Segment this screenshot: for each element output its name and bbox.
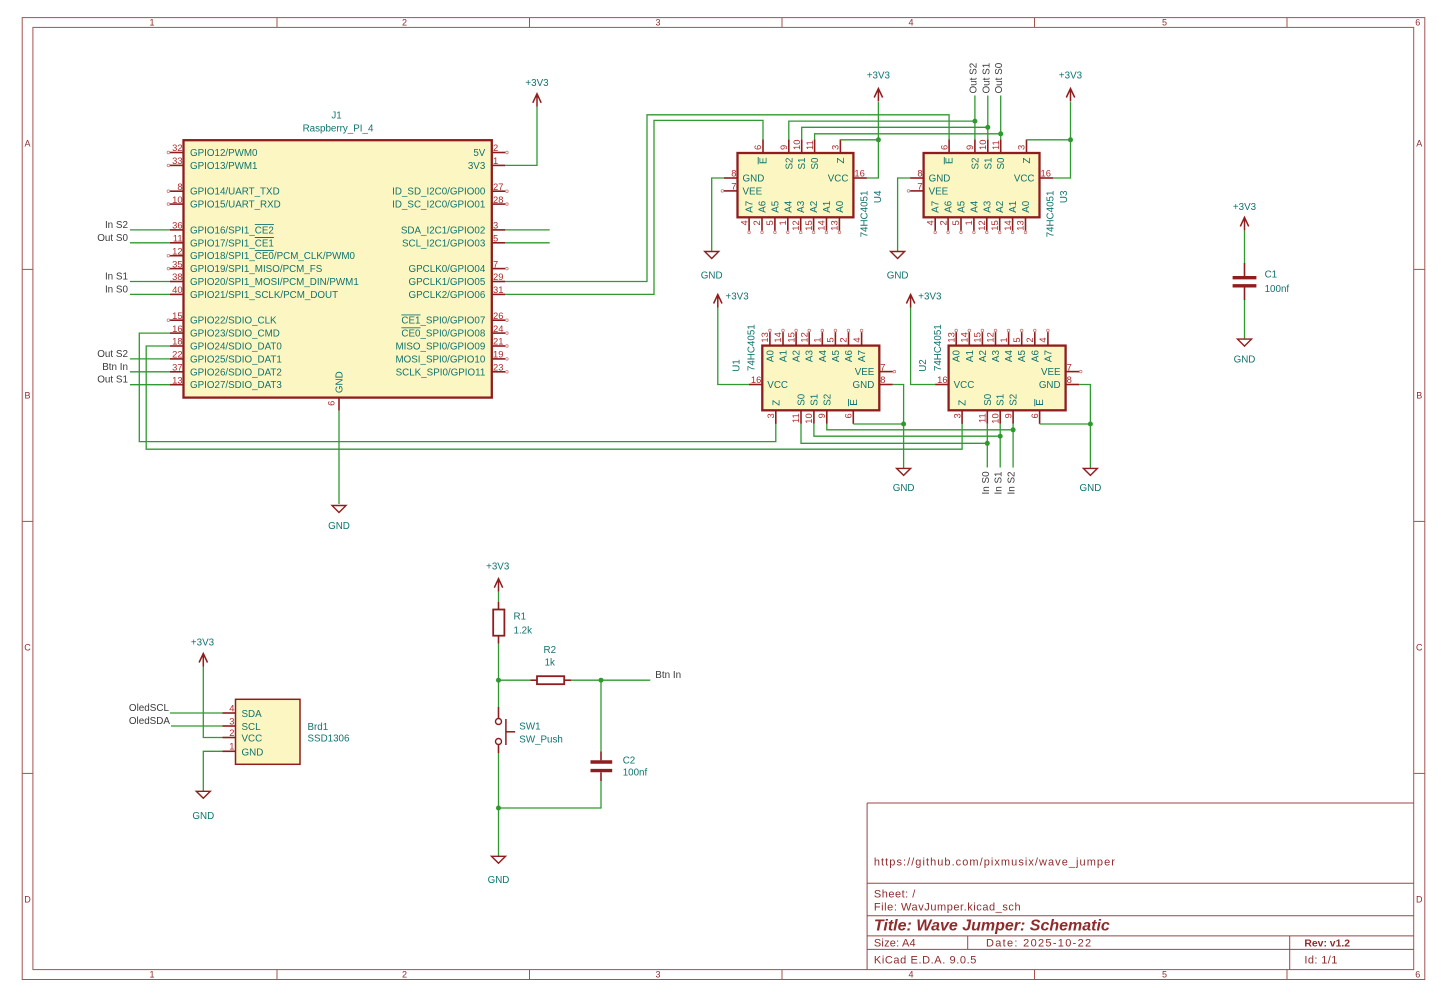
power +3V3 (U2) <box>906 295 914 308</box>
wire In S1 vertical <box>999 423 1001 467</box>
wire junction to C2 <box>600 680 602 751</box>
svg-text:5: 5 <box>1162 18 1167 28</box>
svg-text:Out S0: Out S0 <box>994 62 1005 93</box>
wire U1 S1 to U2 S1 <box>814 423 1000 436</box>
svg-text:10: 10 <box>989 413 1000 423</box>
pin 14 A1 <box>826 217 828 231</box>
wire R2 to Btn In <box>571 679 650 681</box>
svg-text:12: 12 <box>172 245 182 256</box>
svg-text:In S0: In S0 <box>981 471 992 495</box>
svg-text:GPIO22/SDIO_CLK: GPIO22/SDIO_CLK <box>190 316 277 327</box>
power +3V3 (R1) <box>494 579 502 592</box>
svg-text:VCC: VCC <box>828 174 849 185</box>
svg-text:A7: A7 <box>857 350 868 362</box>
pin 14 A1 <box>782 332 784 346</box>
title block <box>867 803 1414 970</box>
svg-text:9: 9 <box>1002 413 1013 418</box>
connector J1 Raspberry_Pi_4 <box>167 110 508 410</box>
pin 1 3V3 <box>492 164 506 166</box>
svg-text:3: 3 <box>1016 145 1027 150</box>
svg-text:A6: A6 <box>1030 350 1041 363</box>
wire GPIO24 to U2 Z <box>146 346 962 449</box>
svg-text:4: 4 <box>229 702 234 713</box>
svg-text:A5: A5 <box>1017 350 1028 363</box>
multiplexer U3 74HC4051 <box>907 140 1070 238</box>
wire junction to R2 <box>499 679 531 681</box>
svg-text:S1: S1 <box>983 158 994 170</box>
pin 7 VEE <box>879 371 893 373</box>
svg-text:B: B <box>24 391 30 401</box>
wire C1 to GND <box>1244 300 1246 339</box>
svg-text:+3V3: +3V3 <box>867 71 891 82</box>
pin 2 A6 <box>761 217 763 231</box>
pin 7 GPCLK0/GPIO04 <box>492 268 506 270</box>
svg-text:U4: U4 <box>873 190 884 203</box>
svg-text:74HC4051: 74HC4051 <box>860 191 871 238</box>
pin 6 E <box>852 410 854 424</box>
svg-text:A0: A0 <box>835 200 846 213</box>
resistor R1 1.2k <box>493 602 532 644</box>
pin 12 A3 <box>800 217 802 231</box>
svg-text:4: 4 <box>851 337 862 342</box>
pin 13 A0 <box>955 332 957 346</box>
svg-text:A7: A7 <box>1043 350 1054 362</box>
pin 3 SDA_I2C1/GPIO02 <box>492 229 506 231</box>
svg-text:6: 6 <box>326 401 337 406</box>
svg-text:A3: A3 <box>796 200 807 213</box>
svg-text:SCL_I2C1/GPIO03: SCL_I2C1/GPIO03 <box>402 238 486 249</box>
wire junction to SW1 <box>498 680 500 707</box>
resistor R2 1k <box>531 645 572 684</box>
wire U2 VCC to +3V3 <box>911 308 936 385</box>
wire Btn In <box>130 371 170 373</box>
svg-text:7: 7 <box>917 181 922 192</box>
pin 1 A4 <box>787 217 789 231</box>
svg-text:A3: A3 <box>805 350 816 363</box>
svg-text:3: 3 <box>655 18 660 28</box>
wire U4 S0 to Out S0 <box>815 134 1001 140</box>
svg-text:15: 15 <box>785 332 796 342</box>
wire Out S0 <box>130 242 170 244</box>
junction <box>998 131 1003 136</box>
wire U3 Z to VCC net <box>1027 139 1071 141</box>
svg-text:A1: A1 <box>965 350 976 362</box>
svg-text:7: 7 <box>493 258 498 269</box>
svg-text:In S0: In S0 <box>105 284 129 295</box>
pin 2 VCC <box>223 737 236 739</box>
svg-text:https://github.com/pixmusix/wa: https://github.com/pixmusix/wave_jumper <box>874 856 1116 868</box>
svg-text:E: E <box>759 157 770 164</box>
svg-text:15: 15 <box>172 310 182 321</box>
wire U1 S0 to U2 S0 <box>801 423 987 443</box>
pin 4 A7 <box>861 332 863 346</box>
svg-text:12: 12 <box>976 220 987 230</box>
svg-text:GPIO13/PWM1: GPIO13/PWM1 <box>190 161 258 172</box>
svg-text:2: 2 <box>402 970 407 980</box>
pin 16 VCC <box>749 384 763 386</box>
multiplexer U1 74HC4051 <box>732 324 896 424</box>
svg-text:Z: Z <box>958 400 969 406</box>
svg-text:A4: A4 <box>783 200 794 213</box>
svg-text:1.2k: 1.2k <box>514 626 533 637</box>
wire U1 VCC to +3V3 <box>718 308 749 385</box>
svg-text:7: 7 <box>1067 361 1072 372</box>
svg-text:SDA: SDA <box>242 709 263 720</box>
svg-text:B: B <box>1416 391 1422 401</box>
svg-text:VCC: VCC <box>954 380 975 391</box>
svg-text:10: 10 <box>172 194 182 205</box>
svg-text:12: 12 <box>798 332 809 342</box>
svg-text:33: 33 <box>172 155 182 166</box>
svg-text:9: 9 <box>816 413 827 418</box>
svg-text:VEE: VEE <box>1041 367 1061 378</box>
svg-text:GND: GND <box>1234 354 1256 365</box>
svg-text:21: 21 <box>493 336 503 347</box>
wire U1 GND <box>893 385 904 469</box>
svg-text:E: E <box>945 157 956 164</box>
pin 13 A0 <box>1025 217 1027 231</box>
svg-text:9: 9 <box>778 145 789 150</box>
svg-text:A3: A3 <box>982 200 993 213</box>
wire Out S0 vertical <box>1000 96 1002 140</box>
pin 12 A3 <box>986 217 988 231</box>
svg-text:VEE: VEE <box>929 186 949 197</box>
display Brd1 SSD1306 <box>223 699 350 764</box>
wire C1 to +3V3 <box>1244 230 1246 263</box>
wire In S2 vertical <box>1012 423 1014 467</box>
pin 16 VCC <box>1040 177 1054 179</box>
pin 1 A4 <box>1008 332 1010 346</box>
pin 5 A5 <box>774 217 776 231</box>
svg-text:Out S2: Out S2 <box>97 349 128 360</box>
pin 16 VCC <box>935 384 949 386</box>
svg-text:Z: Z <box>771 400 782 406</box>
svg-text:C1: C1 <box>1265 270 1278 281</box>
svg-text:+3V3: +3V3 <box>486 562 510 573</box>
multiplexer U2 74HC4051 <box>918 324 1082 424</box>
pin 7 VEE <box>910 190 924 192</box>
pin 10 S1 <box>999 410 1001 424</box>
svg-text:CE1_SPI0/GPIO07: CE1_SPI0/GPIO07 <box>401 316 485 327</box>
pin 12 A3 <box>808 332 810 346</box>
svg-text:14: 14 <box>959 332 970 342</box>
svg-text:GPIO21/SPI1_SCLK/PCM_DOUT: GPIO21/SPI1_SCLK/PCM_DOUT <box>190 290 338 301</box>
svg-text:8: 8 <box>731 168 736 179</box>
pin 8 GND <box>879 384 893 386</box>
svg-text:A4: A4 <box>1004 350 1015 363</box>
pin 14 A1 <box>968 332 970 346</box>
wire 3V3 pin1 <box>505 107 537 166</box>
wire U4 GND <box>712 178 724 252</box>
svg-text:3: 3 <box>229 715 234 726</box>
svg-text:A4: A4 <box>969 200 980 213</box>
svg-text:CE0_SPI0/GPIO08: CE0_SPI0/GPIO08 <box>401 329 485 340</box>
svg-text:3: 3 <box>830 145 841 150</box>
svg-text:OledSCL: OledSCL <box>129 703 170 714</box>
pin 4 SDA <box>223 712 236 714</box>
svg-text:32: 32 <box>172 142 182 153</box>
svg-text:GND: GND <box>743 174 765 185</box>
svg-text:SDA_I2C1/GPIO02: SDA_I2C1/GPIO02 <box>401 225 485 236</box>
svg-text:13: 13 <box>1015 220 1026 230</box>
wire U4 S2 to Out S2 <box>789 121 975 140</box>
junction <box>985 441 990 446</box>
svg-text:D: D <box>1416 895 1423 905</box>
junction <box>998 434 1003 439</box>
wire U1 S2 to U2 S2 <box>827 423 1013 430</box>
power +3V3 (Brd1) <box>199 654 207 667</box>
pin 8 GPIO14/UART_TXD <box>170 190 184 192</box>
svg-text:A5: A5 <box>831 350 842 363</box>
pin 3 Z <box>1026 140 1028 154</box>
pin 40 GPIO21/SPI1_SCLK/PCM_DOUT <box>170 293 184 295</box>
junction <box>1068 137 1073 142</box>
svg-text:3V3: 3V3 <box>468 161 486 172</box>
pin 2 A6 <box>947 217 949 231</box>
pin 15 GPIO22/SDIO_CLK <box>170 319 184 321</box>
svg-text:1: 1 <box>777 220 788 225</box>
ground (J1) <box>332 506 346 513</box>
pin 11 GPIO17/SPI1_CE1 <box>170 242 184 244</box>
svg-text:Sheet: /: Sheet: / <box>874 889 916 901</box>
capacitor C1 <box>1233 263 1290 300</box>
svg-text:Raspberry_PI_4: Raspberry_PI_4 <box>303 124 374 135</box>
svg-text:13: 13 <box>759 332 770 342</box>
svg-text:74HC4051: 74HC4051 <box>1046 191 1057 238</box>
svg-text:Title: Wave Jumper: Schematic: Title: Wave Jumper: Schematic <box>874 917 1110 934</box>
svg-text:8: 8 <box>1067 374 1072 385</box>
pin 13 GPIO27/SDIO_DAT3 <box>170 384 184 386</box>
pin 9 S2 <box>826 410 828 424</box>
junction <box>985 125 990 130</box>
svg-text:+3V3: +3V3 <box>918 292 942 303</box>
svg-text:5: 5 <box>493 233 498 244</box>
svg-text:4: 4 <box>924 220 935 225</box>
svg-text:A6: A6 <box>944 200 955 213</box>
svg-text:S2: S2 <box>970 158 981 170</box>
svg-text:S1: S1 <box>996 394 1007 406</box>
wire In S2 <box>130 229 170 231</box>
svg-text:Btn In: Btn In <box>655 670 681 681</box>
pin 38 GPIO20/SPI1_MOSI/PCM_DIN/PWM1 <box>170 281 184 283</box>
wire Out S1 vertical <box>987 96 989 140</box>
wire U3 GND <box>898 178 911 252</box>
wire Out S1 <box>130 384 170 386</box>
svg-text:11: 11 <box>173 233 183 244</box>
svg-text:14: 14 <box>816 220 827 230</box>
svg-text:KiCad E.D.A. 9.0.5: KiCad E.D.A. 9.0.5 <box>874 954 977 966</box>
ground (U2) <box>1083 468 1097 475</box>
svg-text:Out S0: Out S0 <box>97 233 128 244</box>
svg-text:38: 38 <box>172 271 182 282</box>
pin 5 A5 <box>834 332 836 346</box>
svg-text:A6: A6 <box>844 350 855 363</box>
ground (SW1) <box>492 856 506 863</box>
svg-text:GPIO14/UART_TXD: GPIO14/UART_TXD <box>190 187 280 198</box>
svg-text:E: E <box>849 399 860 406</box>
pin 4 A7 <box>1047 332 1049 346</box>
svg-text:GND: GND <box>488 875 510 886</box>
pin 37 GPIO26/SDIO_DAT2 <box>170 371 184 373</box>
svg-text:+3V3: +3V3 <box>525 78 549 89</box>
pin 11 S0 <box>814 140 816 154</box>
wire U4 VCC to +3V3 <box>867 102 879 178</box>
svg-text:GPIO20/SPI1_MOSI/PCM_DIN/PWM1: GPIO20/SPI1_MOSI/PCM_DIN/PWM1 <box>190 277 359 288</box>
svg-text:GPCLK1/GPIO05: GPCLK1/GPIO05 <box>409 277 486 288</box>
svg-text:In S1: In S1 <box>105 272 129 283</box>
pin 10 S1 <box>801 140 803 154</box>
svg-text:2: 2 <box>937 220 948 225</box>
pin 12 A3 <box>995 332 997 346</box>
svg-text:2: 2 <box>402 18 407 28</box>
wire Out S2 <box>130 358 170 360</box>
svg-text:In S1: In S1 <box>994 471 1005 495</box>
svg-text:File: WavJumper.kicad_sch: File: WavJumper.kicad_sch <box>874 902 1021 914</box>
svg-text:J1: J1 <box>331 110 341 121</box>
svg-text:31: 31 <box>493 284 503 295</box>
pin 3 SCL <box>223 725 236 727</box>
svg-text:Date: 2025-10-22: Date: 2025-10-22 <box>986 937 1092 949</box>
wire U4 S1 to Out S1 <box>802 127 988 140</box>
pin 11 S0 <box>986 410 988 424</box>
svg-text:4: 4 <box>908 970 913 980</box>
svg-text:GPIO16/SPI1_CE2: GPIO16/SPI1_CE2 <box>190 225 274 236</box>
svg-text:18: 18 <box>172 336 182 347</box>
svg-text:GPIO19/SPI1_MISO/PCM_FS: GPIO19/SPI1_MISO/PCM_FS <box>190 264 323 275</box>
svg-text:C: C <box>1416 643 1423 653</box>
svg-text:A2: A2 <box>792 350 803 362</box>
svg-text:1: 1 <box>998 337 1009 342</box>
svg-text:6: 6 <box>938 145 949 150</box>
svg-text:A7: A7 <box>931 201 942 213</box>
svg-text:13: 13 <box>945 332 956 342</box>
pin 21 MISO_SPI0/GPIO09 <box>492 345 506 347</box>
svg-text:In S2: In S2 <box>105 220 128 231</box>
svg-text:8: 8 <box>177 181 182 192</box>
pin 6 E <box>762 140 764 154</box>
ground (C1) <box>1238 339 1252 346</box>
pin 3 Z <box>839 140 841 154</box>
svg-text:14: 14 <box>772 332 783 342</box>
wire U1 E to GND net <box>853 423 903 425</box>
pin 6 E <box>948 140 950 154</box>
wire In S0 <box>130 293 170 295</box>
pin 14 A1 <box>1012 217 1014 231</box>
junction <box>496 678 501 683</box>
svg-text:16: 16 <box>751 374 761 385</box>
svg-text:15: 15 <box>972 332 983 342</box>
wire C2 to GND junction <box>499 781 602 808</box>
svg-text:C2: C2 <box>623 755 636 766</box>
svg-text:S1: S1 <box>797 158 808 170</box>
pin 10 S1 <box>813 410 815 424</box>
svg-text:36: 36 <box>172 220 182 231</box>
svg-text:GPIO23/SDIO_CMD: GPIO23/SDIO_CMD <box>190 329 280 340</box>
svg-text:S2: S2 <box>1009 394 1020 406</box>
svg-text:VEE: VEE <box>743 186 763 197</box>
svg-text:27: 27 <box>493 181 503 192</box>
wire Out S2 vertical <box>974 96 976 140</box>
svg-text:1: 1 <box>493 155 498 166</box>
pin 2 A6 <box>848 332 850 346</box>
svg-text:19: 19 <box>493 349 503 360</box>
svg-text:A0: A0 <box>952 350 963 363</box>
svg-text:SCLK_SPI0/GPIO11: SCLK_SPI0/GPIO11 <box>396 367 486 378</box>
wire GPCLK2 to U4 E <box>505 120 763 294</box>
svg-text:23: 23 <box>493 362 503 373</box>
svg-text:GPCLK2/GPIO06: GPCLK2/GPIO06 <box>409 290 486 301</box>
svg-text:+3V3: +3V3 <box>191 637 215 648</box>
svg-text:VCC: VCC <box>1014 174 1035 185</box>
pin 35 GPIO19/SPI1_MISO/PCM_FS <box>170 268 184 270</box>
svg-text:In S2: In S2 <box>1007 471 1018 494</box>
pin 9 S2 <box>1012 410 1014 424</box>
svg-text:11: 11 <box>790 413 801 423</box>
svg-text:3: 3 <box>951 413 962 418</box>
wire to GND <box>498 808 500 856</box>
svg-text:A2: A2 <box>978 350 989 362</box>
svg-text:3: 3 <box>765 413 776 418</box>
svg-text:R1: R1 <box>514 612 527 623</box>
svg-text:S2: S2 <box>784 158 795 170</box>
pin 4 A7 <box>934 217 936 231</box>
svg-text:1: 1 <box>149 970 154 980</box>
svg-text:GPIO27/SDIO_DAT3: GPIO27/SDIO_DAT3 <box>190 380 282 391</box>
wire U4 Z to VCC net <box>840 139 878 141</box>
pin 10 S1 <box>987 140 989 154</box>
pin 11 S0 <box>800 410 802 424</box>
junction <box>901 422 906 427</box>
pin 15 A2 <box>795 332 797 346</box>
pin 9 S2 <box>788 140 790 154</box>
svg-text:16: 16 <box>1041 168 1051 179</box>
pin 24 CE0_SPI0/GPIO08 <box>492 332 506 334</box>
svg-text:ID_SD_I2C0/GPIO00: ID_SD_I2C0/GPIO00 <box>392 187 486 198</box>
wire U2 E to GND net <box>1040 423 1091 425</box>
wire U3 VCC to +3V3 <box>1053 102 1071 178</box>
pin 4 A7 <box>748 217 750 231</box>
ground (U4) <box>705 252 719 259</box>
svg-text:A5: A5 <box>770 200 781 213</box>
svg-text:MOSI_SPI0/GPIO10: MOSI_SPI0/GPIO10 <box>395 354 485 365</box>
svg-text:GND: GND <box>893 483 915 494</box>
svg-text:C: C <box>24 643 31 653</box>
svg-text:GPIO18/SPI1_CE0/PCM_CLK/PWM0: GPIO18/SPI1_CE0/PCM_CLK/PWM0 <box>190 251 356 262</box>
svg-text:MISO_SPI0/GPIO09: MISO_SPI0/GPIO09 <box>395 342 485 353</box>
svg-text:9: 9 <box>964 145 975 150</box>
svg-text:GND: GND <box>701 271 723 282</box>
svg-text:16: 16 <box>937 374 947 385</box>
svg-text:37: 37 <box>172 362 182 373</box>
wire SCL_I2C1 <box>505 242 549 244</box>
svg-text:6: 6 <box>1415 970 1420 980</box>
svg-text:SCL: SCL <box>242 722 262 733</box>
svg-text:2: 2 <box>838 337 849 342</box>
svg-text:4: 4 <box>908 18 913 28</box>
pin 18 GPIO24/SDIO_DAT0 <box>170 345 184 347</box>
ground (U1) <box>897 468 911 475</box>
svg-text:+3V3: +3V3 <box>726 292 750 303</box>
svg-text:VEE: VEE <box>855 367 875 378</box>
svg-text:2: 2 <box>751 220 762 225</box>
svg-text:GPIO12/PWM0: GPIO12/PWM0 <box>190 148 258 159</box>
svg-text:A3: A3 <box>991 350 1002 363</box>
svg-text:SSD1306: SSD1306 <box>308 734 350 745</box>
svg-text:1k: 1k <box>545 657 555 668</box>
pin 15 A2 <box>981 332 983 346</box>
svg-text:4: 4 <box>738 220 749 225</box>
svg-text:15: 15 <box>989 220 1000 230</box>
